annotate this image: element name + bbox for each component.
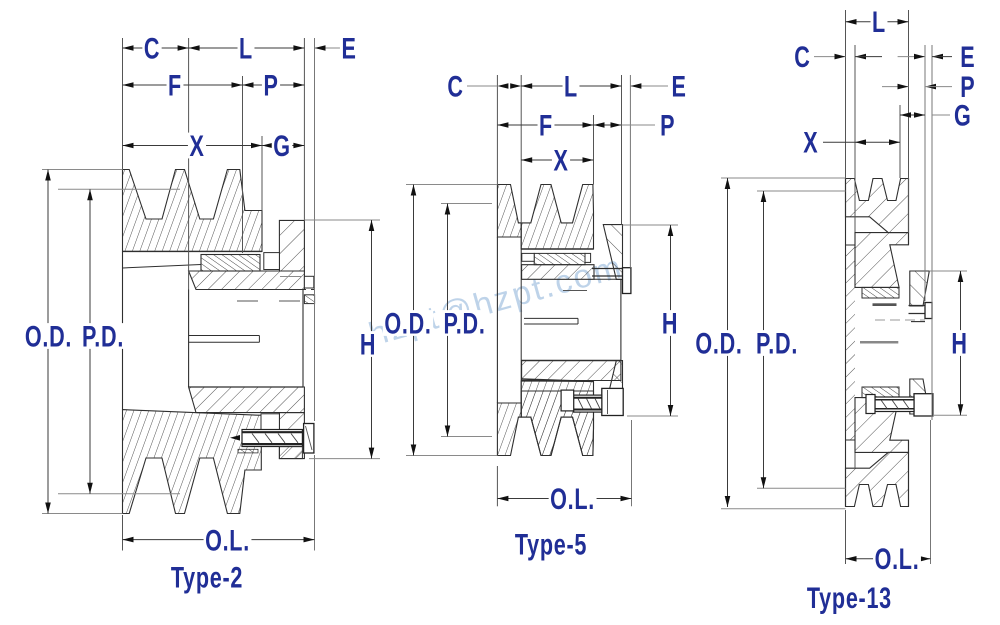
Type-2 bushing flange upper right <box>279 220 304 271</box>
Type-5 keyway <box>524 317 578 319</box>
Type-5 hub outline <box>594 278 621 280</box>
Type-13 rim lower (W grooves hatched) <box>846 452 909 506</box>
svg-text:Type-13: Type-13 <box>807 580 892 614</box>
Type-5 top screw <box>592 268 623 270</box>
svg-text:H: H <box>951 326 967 360</box>
Type-2 small block upper right (dense) <box>304 295 314 304</box>
Type-13 dim row P <box>882 86 909 88</box>
Type-2 dim row X G <box>123 145 263 147</box>
svg-text:C: C <box>794 39 810 73</box>
Type-13 left face line <box>845 179 847 507</box>
Type-13 P.D. dimension <box>757 190 846 192</box>
Type-5 rim bottom emphasis <box>521 248 593 250</box>
Type-2 dim row C L E <box>123 47 189 49</box>
Type-13 H dimension <box>929 270 967 272</box>
Type-2 flange lower right <box>279 413 304 459</box>
Type-2 screw tip arrow <box>230 435 240 441</box>
Type-13 right edge <box>908 179 910 245</box>
svg-text:O.D.: O.D. <box>384 306 431 340</box>
svg-text:Type-5: Type-5 <box>515 527 587 561</box>
Type-2 dashed centerlines upper hub <box>280 276 301 278</box>
svg-text:P: P <box>263 68 278 102</box>
Type-13 dim row C E <box>814 56 846 58</box>
Type-5 rim upper (grooved hatched) <box>518 185 593 250</box>
Type-13 hub block lower <box>855 398 909 453</box>
Type-13 top screw <box>909 305 926 307</box>
Type-5 dash line <box>563 290 587 292</box>
svg-text:X: X <box>553 143 568 177</box>
Type-5 flange upper right <box>603 225 622 280</box>
Type-5 O.L. dimension <box>496 466 498 506</box>
svg-text:L: L <box>239 31 253 65</box>
Type-13 left rim column hatched middle <box>846 245 856 440</box>
Type-5 rim lower (grooved hatched) <box>518 391 593 456</box>
Type-5 H dimension <box>623 224 679 226</box>
Type-13 flange lower <box>910 379 930 414</box>
Type-2 O.L. dimension bottom <box>122 515 124 551</box>
Type-5 bottom screw <box>602 388 623 415</box>
Type-5 extension lines top <box>496 75 498 185</box>
Type-2 rim upper half (grooved, hatched) <box>123 170 263 252</box>
Type-5 type label <box>515 527 587 561</box>
svg-text:F: F <box>539 108 553 142</box>
Type-2 bushing strip upper (dense hatch) <box>201 255 260 272</box>
Type-5 left column middle white band <box>496 237 498 403</box>
svg-text:F: F <box>168 68 182 102</box>
Type-2 bore outline <box>188 290 190 388</box>
svg-text:X: X <box>803 125 818 159</box>
Type-5 dim row F P <box>497 124 593 126</box>
Type-2 lug below screw <box>279 447 302 459</box>
svg-text:C: C <box>447 69 463 103</box>
svg-text:P: P <box>660 108 675 142</box>
Type-13 dim row X <box>823 141 855 143</box>
svg-text:O.L.: O.L. <box>875 542 920 576</box>
Type-2 taper line upper <box>123 265 202 269</box>
Type-13 keyway bar <box>860 341 898 344</box>
Type-2 O.D. dimension left <box>42 169 123 171</box>
Type-5 left column lower (hatched) <box>497 403 521 456</box>
Type-13 O.L. dimension <box>845 510 847 564</box>
svg-text:L: L <box>872 5 886 39</box>
Type-13 flange upper <box>910 271 930 306</box>
svg-text:E: E <box>671 69 686 103</box>
Type-5 left column upper (hatched) <box>497 185 521 238</box>
Type-13 type label <box>807 580 892 614</box>
Type-5 dim row X <box>521 159 593 161</box>
svg-text:O.L.: O.L. <box>205 523 250 557</box>
Type-13 split bar upper <box>873 303 897 306</box>
svg-text:P.D.: P.D. <box>443 306 485 340</box>
Type-5 hub band lower <box>522 361 621 381</box>
Type-5 rim lower half (merged hatch, grooved) <box>521 381 593 456</box>
Type-2 cap screw hole (white) <box>261 414 279 431</box>
Type-13 dim row G <box>900 114 925 116</box>
Type-13 extension lines top <box>845 10 847 178</box>
Type-2 keyway <box>189 335 260 337</box>
Type-2 hub band upper <box>189 271 305 290</box>
Type-13 rim upper (W grooves hatched) <box>846 179 909 233</box>
svg-text:L: L <box>564 69 578 103</box>
svg-text:E: E <box>341 31 356 65</box>
Type-2 cap screw shank (threaded) <box>242 430 302 447</box>
Type-2 P.D. dimension left <box>58 188 180 190</box>
Type-2 type label <box>171 560 243 594</box>
svg-text:X: X <box>189 128 204 162</box>
svg-text:G: G <box>954 98 972 132</box>
Type-5 hub band upper <box>522 265 594 280</box>
Type-2 H dimension right <box>304 219 380 221</box>
Type-2 left face line middle <box>122 251 124 409</box>
Type-2 flange notch upper (white) <box>264 253 280 270</box>
Type-2 rim lower half (merged hatch, grooved) <box>123 410 262 514</box>
Type-5 flange lower right <box>603 361 622 416</box>
svg-text:G: G <box>273 128 291 162</box>
Type-13 hub block upper <box>855 233 909 288</box>
svg-text:P.D.: P.D. <box>756 326 798 360</box>
Type-5 dim row C L E <box>467 85 497 87</box>
Type-5 bushing strip upper <box>534 253 585 264</box>
Type-2 hub band lower (below bore) <box>189 387 305 413</box>
Type-2 screw head block upper right <box>304 276 313 288</box>
Type-13 bushing strip upper <box>862 287 899 298</box>
svg-text:P.D.: P.D. <box>82 319 124 353</box>
Type-13 bottom screw <box>914 394 933 416</box>
Type-13 O.D. dimension <box>721 177 846 179</box>
Type-5 taper line lower <box>522 379 594 382</box>
Type-2 rim bottom emphasis <box>123 250 263 252</box>
Type-2 screw washer/head <box>304 424 314 454</box>
svg-text:O.D.: O.D. <box>695 326 742 360</box>
Type-2 dim row F P <box>123 84 243 86</box>
Type-2 extension lines top dims <box>122 38 124 170</box>
svg-text:H: H <box>662 306 678 340</box>
svg-text:H: H <box>360 327 376 361</box>
svg-text:Type-2: Type-2 <box>171 560 243 594</box>
Type-5 P.D. dimension <box>441 203 492 205</box>
Type-13 bushing strip lower <box>862 387 899 398</box>
svg-text:O.D.: O.D. <box>25 319 72 353</box>
svg-text:O.L.: O.L. <box>550 481 595 515</box>
Type-5 O.D. dimension <box>406 184 497 186</box>
svg-text:C: C <box>144 31 160 65</box>
Type-13 dim row L <box>846 21 909 23</box>
